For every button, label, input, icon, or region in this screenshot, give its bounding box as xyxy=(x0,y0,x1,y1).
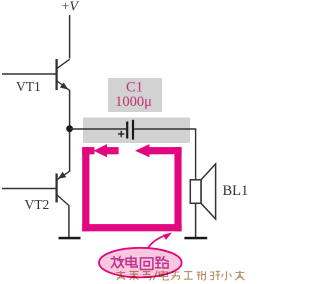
capacitor polarity plus xyxy=(118,131,124,137)
highlight band for C1 label xyxy=(108,78,162,112)
transistor VT2 xyxy=(2,171,70,205)
discharge loop left side xyxy=(82,147,89,231)
callout ellipse xyxy=(99,248,182,278)
svg-text:1000μ: 1000μ xyxy=(115,94,152,110)
callout text 'fang' xyxy=(111,256,124,267)
transistor VT1 xyxy=(2,59,70,91)
discharge loop top-left arm xyxy=(82,147,94,154)
discharge loop right side xyxy=(174,147,181,231)
ground bar under speaker xyxy=(184,237,207,240)
ground bar under VT2 xyxy=(59,237,81,240)
wire junction to capacitor xyxy=(70,128,127,130)
svg-text:BL1: BL1 xyxy=(223,183,249,199)
callout text 'lu' xyxy=(156,257,169,268)
callout pointer arrow xyxy=(146,233,172,252)
capacitor C1 xyxy=(127,120,133,140)
discharge loop arrow 1 xyxy=(94,144,119,157)
wire +V to VT1 collector xyxy=(69,15,71,58)
label C1 xyxy=(115,80,152,110)
highlight band for capacitor row xyxy=(83,118,190,144)
wire VT1 emitter to VT2 emitter xyxy=(69,90,71,172)
callout text 'dian' xyxy=(126,256,137,267)
watermark 'toutiaohao/dianzi gongchengshi xiaoli' xyxy=(116,271,244,281)
svg-text:VT1: VT1 xyxy=(16,79,41,94)
svg-text:VT2: VT2 xyxy=(25,197,50,212)
callout text 'hui' xyxy=(141,258,153,270)
speaker BL1 xyxy=(190,164,215,219)
wire capacitor to speaker xyxy=(134,129,196,180)
discharge loop arrow 2 xyxy=(135,144,182,157)
wire speaker to ground xyxy=(195,203,197,237)
junction node dot xyxy=(66,125,73,132)
svg-text:+V: +V xyxy=(62,0,80,15)
wire VT2 collector to ground xyxy=(68,205,70,237)
discharge loop bottom side xyxy=(82,224,181,231)
